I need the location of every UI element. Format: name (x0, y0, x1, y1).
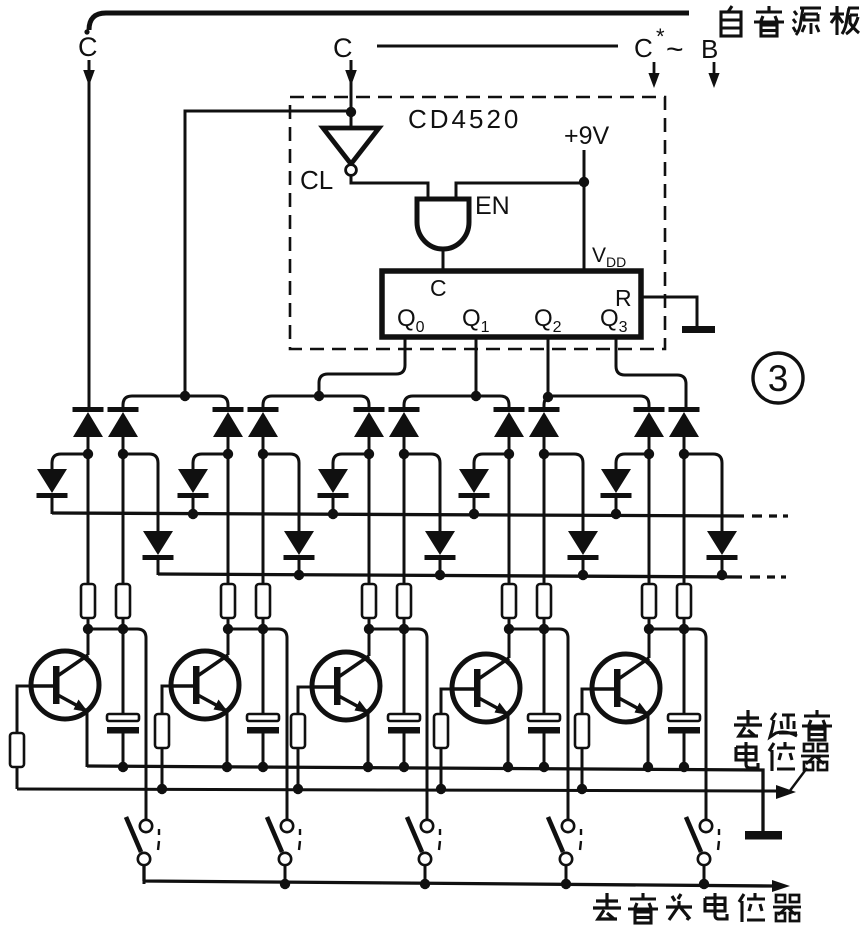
wire switch to bus3 (424, 865, 427, 884)
node cap on rail1 (258, 762, 268, 772)
wire switch to bus3 (565, 865, 568, 884)
switch S3 (407, 817, 440, 865)
wire pointer to sustain label (789, 768, 807, 792)
resistor R2c base (155, 714, 169, 748)
wire Q1 arc pair (404, 396, 509, 407)
diode D3a steering up column 369 (354, 407, 385, 437)
wire collector cell 1 (87, 629, 90, 655)
wire branch to bus2 (684, 454, 722, 531)
diode D4c to bus1 (459, 469, 490, 498)
resistor R2b (256, 584, 270, 618)
switch S5 (686, 817, 719, 865)
resistor R4a (502, 584, 516, 618)
wire branch to bus1 (52, 454, 88, 469)
wire C input drop (350, 60, 353, 128)
node merge 5L (644, 624, 654, 634)
wire collector cell 5 (648, 629, 651, 658)
wire Cbar branch (185, 111, 351, 396)
wire arrow input B (713, 62, 716, 78)
resistor R4b (537, 584, 551, 618)
switch S1 (126, 817, 159, 865)
node merge 3R (399, 624, 409, 634)
wire base resistor to rail2 (16, 767, 19, 789)
wire column 228 (227, 436, 230, 629)
capacitor C3 (388, 714, 420, 734)
wire column 684 (683, 436, 686, 629)
wire cap feed cell 5 (683, 629, 686, 714)
wire branch to bus1 (193, 454, 228, 469)
wire collector cell 3 (368, 629, 371, 656)
wire merge node cell 2 (228, 629, 287, 820)
svg-text:EN: EN (475, 192, 510, 220)
svg-text:C: C (430, 275, 447, 301)
node sustain pot label 去延音 (734, 710, 832, 740)
wire branch to bus1 (616, 454, 649, 469)
wire cap feed cell 4 (543, 629, 546, 714)
diode D4d to bus2 (568, 531, 599, 560)
node branch 2R (258, 449, 268, 459)
wire merge node cell 3 (369, 629, 427, 820)
wire Q1 feed (475, 337, 478, 396)
wire diode to bus2 (298, 560, 301, 575)
wire branch to bus2 (544, 454, 583, 531)
node pickup pot label 去音头电位器 (593, 893, 801, 923)
svg-text:CL: CL (300, 165, 333, 195)
diode D3b steering up column 404 (389, 407, 420, 437)
wire column 404 (403, 436, 406, 629)
wire cap to rail1 (403, 734, 406, 768)
node base on rail2 (157, 784, 167, 794)
transistor Q2 (171, 651, 239, 719)
wire column 649 (648, 436, 651, 629)
resistor R3c base (291, 714, 305, 748)
wire switch to bus3 (143, 865, 146, 884)
node diode on bus1 (611, 509, 621, 519)
resistor R4c base (434, 714, 448, 748)
switch S4 (548, 817, 581, 865)
svg-text:C: C (333, 33, 353, 63)
wire Q2 feed (547, 337, 550, 397)
node switch on bus3 (280, 879, 290, 889)
node cap on rail1 (539, 762, 549, 772)
node sound source board label 自音源板 (721, 6, 859, 36)
svg-text:B: B (701, 34, 718, 64)
diode D1b steering up column 123 (108, 407, 139, 437)
ground (682, 326, 715, 333)
resistor R3b (397, 584, 411, 618)
wire merge node cell 4 (509, 629, 568, 820)
node merge 2R (258, 624, 268, 634)
transistor Q1 (31, 651, 99, 719)
diode D2b steering up column 263 (248, 407, 279, 437)
wire top bus to sound-source board (89, 13, 689, 30)
diode D5c to bus1 (601, 469, 632, 498)
wire diode to bus2 (439, 560, 442, 575)
wire cap to rail1 (543, 734, 546, 768)
wire base resistor to rail2 (440, 748, 443, 789)
wire diode to bus2 (582, 560, 585, 575)
wire base cell 1 (17, 686, 31, 733)
node emitter on rail1 (643, 762, 653, 772)
wire arrow input C# (653, 62, 656, 78)
op-amp U1 inverter CL (323, 128, 379, 164)
node emitter on rail1 (222, 762, 232, 772)
capacitor C1 (107, 714, 139, 734)
diode D3d to bus2 (425, 531, 456, 560)
node diode on bus1 (328, 509, 338, 519)
resistor R1b (116, 584, 130, 618)
wire gate output to C pin (442, 249, 445, 271)
node switch on bus3 (699, 879, 709, 889)
node branch 5L (644, 449, 654, 459)
svg-text:C: C (634, 33, 653, 63)
wire column 263 (262, 436, 265, 629)
resistor R3a (362, 584, 376, 618)
node merge 1R (118, 624, 128, 634)
node diode on bus1 (469, 509, 479, 519)
node merge 2L (223, 624, 233, 634)
diode D3c to bus1 (318, 469, 349, 498)
node emitter on rail1 (363, 762, 373, 772)
wire cap to rail1 (262, 734, 265, 768)
wire diode to bus1 (473, 498, 476, 514)
wire diode to bus2 (157, 560, 160, 575)
node merge 3L (364, 624, 374, 634)
wire base cell 3 (298, 687, 312, 714)
wire diode to bus1 (51, 498, 54, 514)
node diode on bus2 (717, 570, 727, 580)
wire merge node cell 5 (649, 629, 706, 820)
wire base cell 5 (582, 689, 592, 714)
node switch on bus3 (420, 879, 430, 889)
node junction EN/+9V (579, 177, 589, 187)
wire branch to bus2 (404, 454, 440, 531)
wire diode to bus1 (192, 498, 195, 514)
diode D1a steering up column 88 (73, 407, 104, 437)
node switch on bus3 (561, 879, 571, 889)
node cap on rail1 (118, 762, 128, 772)
node cap on rail1 (399, 762, 409, 772)
wire base cell 2 (162, 686, 171, 714)
wire emitter to rail1 (86, 711, 89, 767)
wire bus1 keying line (52, 513, 788, 516)
wire cap feed cell 2 (262, 629, 265, 714)
wire base resistor to rail2 (297, 748, 300, 789)
node branch 1L (83, 449, 93, 459)
wire column 369 (368, 436, 371, 629)
wire rail2 sustain line with arrow (17, 789, 778, 791)
node branch 2L (223, 449, 233, 459)
node cap on rail1 (679, 762, 689, 772)
diode D5a steering up column 649 (634, 407, 665, 437)
wire column 509 (508, 436, 511, 629)
capacitor C2 (247, 714, 279, 734)
node emitter on rail1 (503, 762, 513, 772)
wire cap feed cell 3 (403, 629, 406, 714)
IC U3 CD4520 counter body (382, 271, 641, 337)
wire diode to bus1 (615, 498, 618, 514)
diode D2d to bus2 (284, 531, 315, 560)
resistor R1c base (10, 733, 24, 767)
node merge 4L (504, 624, 514, 634)
wire branch to bus1 (474, 454, 509, 469)
node merge 5R (679, 624, 689, 634)
wire diode to bus1 (332, 498, 335, 514)
wire bus3 pickup line with arrow (144, 866, 772, 886)
ground bar (745, 831, 782, 840)
node branch 4L (504, 449, 514, 459)
node merge 4R (539, 624, 549, 634)
node Cbar junction (180, 391, 190, 401)
wire cap feed cell 1 (122, 629, 125, 714)
diode D5b steering up column 684 (669, 407, 700, 437)
node base on rail2 (577, 784, 587, 794)
capacitor C5 (668, 714, 700, 734)
wire emitter to rail1 (647, 714, 650, 767)
diode D4b steering up column 544 (529, 407, 560, 437)
resistor R5c base (575, 714, 589, 748)
wire column 544 (543, 436, 546, 629)
switch S2 (267, 817, 300, 865)
wire switch to bus3 (703, 865, 706, 884)
node branch 3R (399, 449, 409, 459)
node base on rail2 (436, 784, 446, 794)
wire branch to bus2 (123, 454, 158, 531)
wire C dash line (377, 45, 618, 48)
svg-text:3: 3 (768, 358, 789, 399)
node Q0 junction (314, 391, 324, 401)
wire branch to bus2 (263, 454, 299, 531)
node branch 1R (118, 449, 128, 459)
node merge 1L (83, 624, 93, 634)
svg-text:+9V: +9V (564, 122, 610, 150)
resistor R5b (677, 584, 691, 618)
node diode on bus2 (294, 570, 304, 580)
resistor R1a (81, 584, 95, 618)
wire emitter to rail1 (507, 714, 510, 767)
wire rail1 emitters to ground bar (87, 766, 763, 832)
wire R pin to ground (641, 297, 697, 327)
wire column 88 (87, 436, 90, 629)
resistor R2a (221, 584, 235, 618)
wire base resistor to rail2 (581, 748, 584, 789)
svg-text:CD4520: CD4520 (408, 104, 521, 134)
wire switch to bus3 (284, 865, 287, 884)
node branch 5R (679, 449, 689, 459)
wire collector cell 2 (227, 629, 230, 655)
wire CL to gate (351, 176, 428, 198)
wire merge node cell 1 (88, 629, 146, 820)
diode D1d to bus2 (143, 531, 174, 560)
wire Q0 feed (319, 337, 405, 396)
node diode on bus2 (578, 570, 588, 580)
diode D4a steering up column 509 (494, 407, 525, 437)
wire +9V rail (583, 150, 586, 271)
wire base cell 4 (441, 689, 452, 714)
node Q1 junction (471, 391, 481, 401)
node figure number 3 (753, 353, 803, 403)
node diode on bus2 (435, 570, 445, 580)
diode D5d to bus2 (707, 531, 738, 560)
wire branch to bus1 (333, 454, 369, 469)
transistor Q5 (592, 654, 660, 722)
wire collector cell 4 (508, 629, 511, 658)
wire Cdot feed with arrow (88, 60, 91, 407)
diode D2a steering up column 228 (213, 407, 244, 437)
wire Cbar arc pair (123, 396, 228, 407)
wire Q2 arc pair (544, 396, 649, 407)
wire EN input from +9V (456, 183, 584, 198)
node diode on bus1 (188, 509, 198, 519)
wire column 123 (122, 436, 125, 629)
wire Q3 feed (616, 337, 686, 407)
wire emitter to rail1 (367, 712, 370, 767)
node branch 4R (539, 449, 549, 459)
transistor Q3 (312, 652, 380, 720)
gate U2 AND EN (417, 199, 469, 249)
capacitor C4 (528, 714, 560, 734)
svg-text:C: C (78, 32, 98, 62)
node sustain pot label 电位器 (736, 742, 829, 771)
node junction C/inverter (346, 107, 356, 117)
node branch 3L (364, 449, 374, 459)
wire diode to bus2 (721, 560, 724, 575)
wire cap to rail1 (683, 734, 686, 768)
wire Q0 arc pair (263, 396, 369, 407)
wire bus2 keying line (158, 574, 786, 577)
IC CD4520 dashed boundary (290, 97, 665, 349)
diode D2c to bus1 (178, 469, 209, 498)
resistor R5a (642, 584, 656, 618)
node Q2 junction (543, 392, 553, 402)
svg-text:*: * (656, 24, 665, 49)
svg-text:~: ~ (666, 33, 684, 66)
wire base resistor to rail2 (161, 748, 164, 789)
node base on rail2 (293, 784, 303, 794)
transistor Q4 (452, 654, 520, 722)
wire cap to rail1 (122, 734, 125, 768)
wire emitter to rail1 (226, 711, 229, 767)
diode D1c to bus1 (37, 469, 68, 498)
